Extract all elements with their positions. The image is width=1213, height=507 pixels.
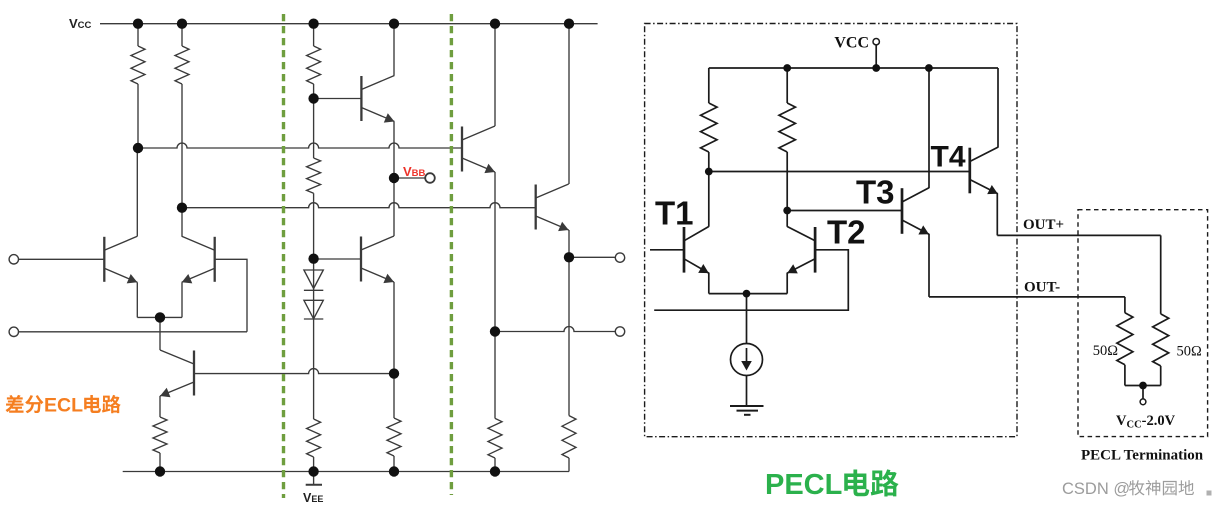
svg-text:T4: T4: [931, 141, 966, 174]
terminal input 1: [9, 255, 18, 264]
svg-text:OUT-: OUT-: [1024, 280, 1060, 296]
wire QR base loop: [215, 259, 247, 332]
wire R2 bottom through to node B: [181, 84, 183, 237]
wire out2 node to resistor R7: [494, 332, 496, 419]
PECL circuit dash-dot border box: [645, 24, 1017, 437]
diode D1: [304, 270, 323, 289]
wire input 1: [19, 258, 105, 260]
transistor T4: [970, 147, 998, 194]
wire tail to current source: [746, 294, 748, 344]
wire Q3 collector to rail: [494, 24, 496, 126]
svg-text:T3: T3: [856, 174, 895, 211]
transistor Q5: [361, 76, 394, 123]
wire Q6 collector to VBB node: [393, 178, 395, 236]
wire tail node down to QB collector: [159, 317, 161, 350]
svg-text:OUT+: OUT+: [1023, 217, 1064, 233]
wire OUT- down to RT1: [1124, 297, 1126, 313]
label PECL电路 title: [765, 469, 899, 501]
diode D2: [304, 300, 323, 319]
resistor R7: [488, 418, 502, 458]
svg-text:VCC-2.0V: VCC-2.0V: [1116, 413, 1176, 431]
resistor R8: [562, 416, 576, 458]
wire common emitter joint: [137, 316, 182, 318]
wire R1 bottom to node: [137, 84, 139, 148]
wire R4 to lower tap and through diode chain: [313, 193, 315, 419]
wire OUT+ down to RT2: [1160, 235, 1162, 314]
wire R7 to bottom rail: [494, 458, 496, 472]
wire RT1 bottom: [1124, 365, 1126, 386]
svg-text:50Ω: 50Ω: [1093, 343, 1119, 359]
label 差分ECL电路 title: [6, 395, 121, 417]
wire out1 node down to resistor R8: [568, 257, 570, 415]
transistor T3: [902, 188, 929, 235]
wire rail to RC2: [786, 68, 788, 103]
wire OUT+: [997, 234, 1160, 236]
wire T4 emitter to OUT+: [996, 193, 998, 235]
transistor T1: [684, 227, 709, 274]
wire termination to VTT terminal: [1142, 386, 1144, 399]
transistor QB: [160, 350, 194, 397]
wire Q6 emitter node down to resistor R6: [393, 374, 395, 418]
transistor QL: [104, 236, 137, 283]
svg-text:VCC: VCC: [69, 16, 92, 31]
wire R5 to bottom rail: [313, 457, 315, 472]
wire Q4 collector to rail: [568, 24, 570, 184]
wire node1 bus: [138, 143, 462, 148]
resistor R4: [307, 158, 321, 193]
svg-text:ECL: ECL: [44, 395, 83, 417]
resistor R9: [153, 417, 167, 453]
wire bias line to QB base: [194, 369, 394, 374]
svg-text:PECL: PECL: [765, 469, 842, 501]
svg-text:CSDN @: CSDN @: [1062, 480, 1130, 498]
wire Q3 emitter down to out2 node: [494, 172, 496, 332]
wire VCC rail: [709, 67, 998, 69]
terminal VTT: [1140, 399, 1146, 405]
ground symbol: [730, 406, 764, 415]
wire VEE bottom rail: [123, 471, 569, 473]
wire T2 collector node to T3 base: [787, 210, 902, 212]
wire T1 collector node to T4 base: [709, 171, 970, 173]
svg-text:50Ω: 50Ω: [1177, 343, 1203, 359]
wire R9 to bottom rail: [159, 453, 161, 472]
wire T1 base input: [650, 249, 684, 251]
wire QR emitter down: [181, 282, 183, 317]
resistor R3 top lead: [313, 24, 315, 46]
resistor R1 top lead: [137, 24, 139, 46]
terminal input 2: [9, 327, 18, 336]
resistor R1: [131, 46, 145, 84]
transistor Q4: [536, 184, 569, 231]
wire T4 collector to rail corner: [997, 68, 999, 148]
resistor R6: [387, 418, 401, 456]
wire T2 base loop: [654, 250, 848, 310]
wire output 1: [569, 256, 615, 258]
transistor Q6: [361, 236, 394, 283]
wire RC2 to T2 collector node: [786, 152, 788, 227]
resistor RC2: [779, 103, 795, 152]
wire R8 to bottom rail corner: [568, 458, 570, 472]
wire current source to ground: [746, 376, 748, 407]
svg-text:VBB: VBB: [403, 164, 426, 179]
resistor R2: [175, 46, 189, 84]
divider dashed line 1: [282, 14, 285, 498]
wire base of Q5: [314, 98, 362, 100]
svg-text:VEE: VEE: [303, 491, 323, 505]
wire T1 emitter down: [708, 273, 710, 294]
resistor R2 top lead: [181, 24, 183, 46]
wire common emitter joint: [709, 293, 787, 295]
wire QL collector to R1 node: [136, 148, 138, 236]
svg-text:VCC: VCC: [834, 35, 869, 52]
PECL termination dashed border box: [1078, 210, 1208, 437]
wire output 2: [495, 327, 615, 332]
wire Q5 collector to rail: [393, 24, 395, 76]
svg-text:T2: T2: [827, 214, 866, 251]
wire node2 bus: [182, 203, 536, 208]
resistor RT2 50ohm: [1153, 314, 1169, 366]
svg-text:PECL Termination: PECL Termination: [1081, 447, 1204, 463]
watermark CSDN: [1062, 480, 1212, 498]
wire T3 collector to rail: [928, 68, 930, 188]
wire OUT-: [929, 296, 1125, 298]
wire R3 to bias tap: [313, 84, 315, 158]
wire RC1 to T1 collector node: [708, 152, 710, 227]
svg-text:T1: T1: [655, 195, 694, 232]
ground VEE stub: [313, 472, 315, 485]
wire T2 emitter down: [786, 273, 788, 294]
wire RT2 bottom: [1160, 366, 1162, 386]
transistor QR: [182, 236, 215, 283]
terminal output 2: [615, 327, 624, 336]
power VCC stub: [875, 45, 877, 68]
wire input 2: [19, 331, 248, 333]
terminal VCC: [873, 39, 879, 45]
wire VCC top rail: [100, 23, 598, 25]
divider dashed line 2: [450, 14, 453, 495]
terminal output 1: [615, 253, 624, 262]
wire VBB node to terminal: [394, 177, 426, 179]
wire Q4 emitter to out1 node: [568, 230, 570, 257]
wire Q6 emitter down: [393, 282, 395, 374]
wire QL emitter down: [136, 282, 138, 317]
current source I1: [731, 344, 763, 376]
wire base of Q6: [314, 258, 361, 260]
wire Q5 emitter to VBB node: [393, 122, 395, 179]
resistor R5: [307, 419, 321, 457]
transistor Q3: [462, 126, 495, 173]
resistor RC1: [701, 103, 717, 152]
wire termination joint: [1125, 385, 1161, 387]
resistor R3: [307, 46, 321, 84]
wire R6 to bottom rail: [393, 456, 395, 472]
wire T3 emitter to OUT-: [928, 234, 930, 297]
wire rail left corner down: [708, 68, 710, 103]
wire QB emitter to resistor R9: [159, 396, 161, 417]
terminal VBB: [425, 173, 435, 183]
resistor RT1 50ohm: [1117, 313, 1133, 365]
transistor T2: [787, 227, 815, 274]
junction dots right: [705, 64, 1147, 389]
